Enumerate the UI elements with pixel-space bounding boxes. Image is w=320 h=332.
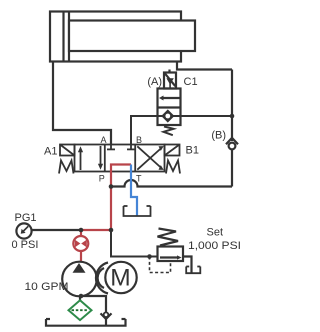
svg-text:A: A	[101, 135, 107, 145]
svg-text:M: M	[110, 265, 130, 292]
svg-text:B: B	[136, 135, 142, 145]
svg-text:10 GPM: 10 GPM	[25, 281, 69, 293]
svg-text:PG1: PG1	[15, 212, 37, 224]
svg-text:0 PSI: 0 PSI	[12, 239, 39, 251]
svg-text:A1: A1	[44, 146, 57, 158]
svg-text:Set: Set	[207, 227, 224, 239]
svg-text:(A): (A)	[147, 76, 162, 88]
svg-text:B1: B1	[186, 145, 199, 157]
svg-text:1,000 PSI: 1,000 PSI	[188, 240, 241, 252]
svg-text:T: T	[136, 174, 142, 184]
svg-text:P: P	[99, 174, 105, 184]
svg-text:(B): (B)	[211, 130, 226, 142]
svg-text:C1: C1	[184, 76, 198, 88]
